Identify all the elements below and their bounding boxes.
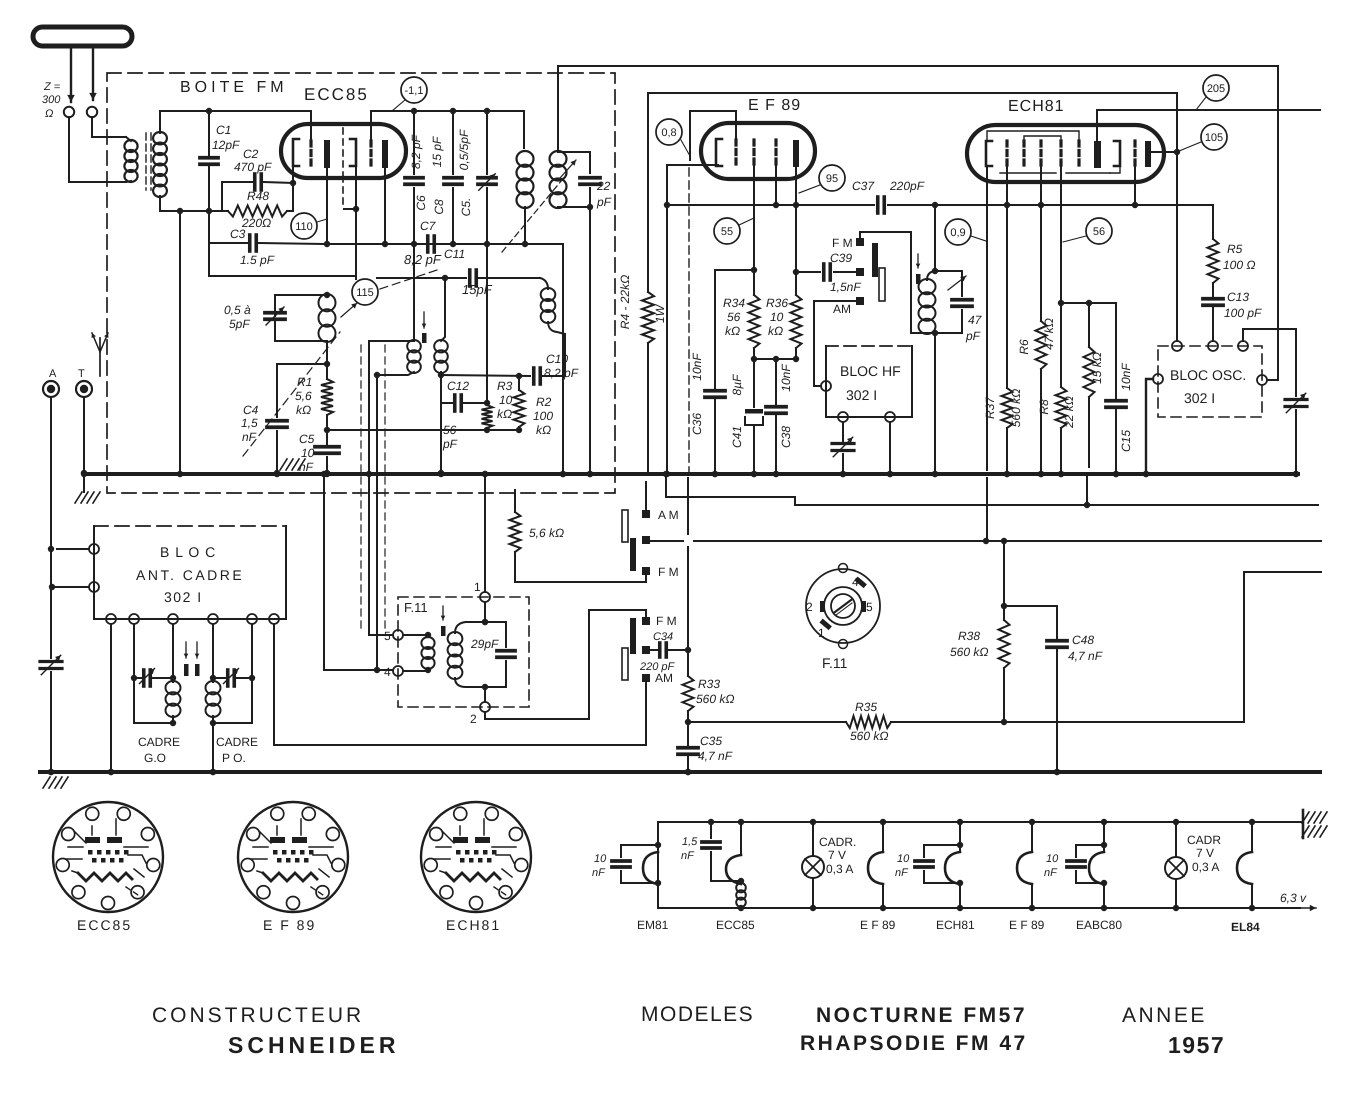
svg-text:115: 115 xyxy=(356,287,374,299)
EF89 grid2 xyxy=(752,140,755,166)
wire EF89 cathode out xyxy=(667,165,718,205)
capacitor C5 0.5/5pF xyxy=(486,111,488,174)
switch1 FM contact xyxy=(642,567,650,575)
switch2 FM contact xyxy=(642,617,650,625)
wire g-d elbow xyxy=(1060,166,1062,387)
socket ECC85 xyxy=(53,802,163,912)
svg-text:7 V: 7 V xyxy=(1196,846,1214,860)
ECC85 grid-1 xyxy=(309,141,312,167)
node C1 bottom xyxy=(206,208,212,214)
svg-text:100 pF: 100 pF xyxy=(1224,306,1262,320)
AM osc coil right bottom xyxy=(440,372,442,473)
svg-text:100: 100 xyxy=(533,409,553,423)
svg-text:470 pF: 470 pF xyxy=(234,160,272,174)
node C1 top xyxy=(206,108,212,114)
tank cap arrow xyxy=(948,276,966,290)
dipole left lead with arrow xyxy=(70,46,72,102)
wire pin2 xyxy=(52,586,89,588)
AM osc coil right xyxy=(434,340,448,352)
resistor R48 220ohm xyxy=(221,182,223,211)
svg-text:302 I: 302 I xyxy=(164,589,203,605)
terminal T xyxy=(76,381,92,397)
svg-text:ANNEE: ANNEE xyxy=(1122,1004,1207,1027)
variable cap OSC xyxy=(1285,398,1307,401)
svg-text:R3: R3 xyxy=(497,379,513,393)
node C11 wire xyxy=(442,275,448,281)
svg-text:C35: C35 xyxy=(700,734,722,748)
box F11 xyxy=(398,597,529,707)
switch3 black bar xyxy=(872,243,878,277)
chassis wall xyxy=(1302,810,1305,838)
svg-text:5,6: 5,6 xyxy=(295,389,312,403)
node cathode gnd xyxy=(664,202,670,208)
node y244 a xyxy=(324,241,330,247)
wire T to bus xyxy=(83,397,85,473)
svg-text:pF: pF xyxy=(442,437,458,451)
resistor R36 10k xyxy=(791,295,802,348)
svg-text:4: 4 xyxy=(852,575,859,589)
svg-text:220pF: 220pF xyxy=(889,179,925,193)
wire avc solid xyxy=(687,478,689,534)
svg-text:C48: C48 xyxy=(1072,633,1094,647)
wire FM to resistor xyxy=(515,552,646,582)
bus junctions xyxy=(81,471,87,477)
wire anode1 pin xyxy=(292,166,294,183)
wire ground drop x180 xyxy=(179,211,181,473)
svg-text:C10: C10 xyxy=(546,352,568,366)
svg-text:F M: F M xyxy=(656,614,677,628)
pin OSC right xyxy=(1257,375,1267,385)
svg-text:T: T xyxy=(78,368,85,380)
wire pin1 xyxy=(57,548,89,550)
pin bloc b3 xyxy=(168,614,178,624)
switch2 white bar xyxy=(622,648,628,680)
svg-text:55: 55 xyxy=(721,226,733,238)
svg-text:10: 10 xyxy=(897,853,910,865)
svg-text:CADRE: CADRE xyxy=(138,735,180,749)
capacitor C7 8.2pF xyxy=(426,236,430,252)
capacitor C11 15pF xyxy=(468,270,472,286)
svg-text:12pF: 12pF xyxy=(212,138,240,152)
wire elbow right xyxy=(1244,572,1321,722)
bus2 junctions xyxy=(48,769,54,775)
pin BLOC HF left xyxy=(821,381,831,391)
svg-text:C36: C36 xyxy=(690,413,704,435)
socket ECH81 xyxy=(421,802,531,912)
svg-text:BOITE FM: BOITE FM xyxy=(180,79,288,96)
wire grid line y244 xyxy=(324,244,563,474)
svg-text:ANT. CADRE: ANT. CADRE xyxy=(136,567,244,583)
svg-text:R33: R33 xyxy=(698,677,720,691)
svg-text:5,6 kΩ: 5,6 kΩ xyxy=(529,526,564,540)
svg-text:2: 2 xyxy=(806,600,813,614)
ECH81 tri grid xyxy=(1133,141,1136,166)
svg-text:kΩ: kΩ xyxy=(768,324,783,338)
ECH81 cathode bracket xyxy=(986,141,992,166)
svg-text:1,5: 1,5 xyxy=(241,416,258,430)
wire A to bus2 xyxy=(50,672,52,772)
svg-text:CADR: CADR xyxy=(1187,833,1221,847)
node bus2 C35 xyxy=(685,769,691,775)
box BOITE FM xyxy=(107,73,615,493)
node A pin1 xyxy=(48,546,54,552)
ECC85 cathode-2 bar xyxy=(382,140,388,168)
svg-text:C12: C12 xyxy=(447,379,469,393)
wire HF b2 to bus xyxy=(889,422,891,474)
node y244 e xyxy=(522,241,528,247)
pin F11 4 xyxy=(393,666,403,676)
svg-text:nF: nF xyxy=(1044,867,1058,879)
capacitor C15 10nF xyxy=(1115,303,1117,398)
capacitor C41 8uF xyxy=(753,359,755,407)
wire common y541 xyxy=(650,540,683,542)
meas circle -1,1 xyxy=(401,77,427,103)
svg-text:kΩ: kΩ xyxy=(536,423,551,437)
resistor R6 47k xyxy=(1040,205,1042,321)
resistor R5 100ohm xyxy=(1208,239,1219,283)
wire tank riser xyxy=(934,205,936,271)
wire ECH81 anode riser xyxy=(1096,110,1098,141)
wire anode line y205 xyxy=(667,204,874,206)
wire secondary bottom xyxy=(160,196,222,211)
meas circle 0,9 xyxy=(945,219,971,245)
rotary F11 outer xyxy=(806,569,880,643)
capacitor C4 1.5nF xyxy=(276,364,278,417)
wire to pin4 line xyxy=(376,375,378,670)
resistor R4 22k xyxy=(642,292,654,343)
node bus x563 xyxy=(560,471,566,477)
wire screen drop xyxy=(753,166,755,295)
wire R4 to bus xyxy=(647,343,649,474)
svg-text:C3: C3 xyxy=(230,227,246,241)
pin bloc b6 xyxy=(269,614,279,624)
gang dash b xyxy=(384,345,386,628)
ECH81 tri bracket xyxy=(1114,141,1120,166)
svg-text:1.5 pF: 1.5 pF xyxy=(240,253,275,267)
capacitor C8 15pF xyxy=(452,111,454,174)
capacitor C39 1.5nF xyxy=(796,271,820,273)
svg-text:C7: C7 xyxy=(420,219,437,233)
svg-text:R8: R8 xyxy=(1037,399,1051,415)
heater lamp2 xyxy=(1175,822,1177,857)
wire coil2 bottom xyxy=(558,206,590,208)
box BLOC HF xyxy=(826,345,912,347)
wire cathode to bus xyxy=(666,205,668,474)
node coil top xyxy=(324,292,330,298)
wire bracket2 pin xyxy=(355,166,357,209)
F11 secondary coil xyxy=(448,632,463,645)
rotary F11 mid xyxy=(824,587,862,625)
ECH81 grid b xyxy=(1022,141,1025,166)
svg-text:EM81: EM81 xyxy=(637,918,669,932)
pin bloc b4 xyxy=(208,614,218,624)
capacitor C12 56pF xyxy=(441,402,452,404)
ground bus2 hatch xyxy=(43,777,50,788)
wire R35 to elbow xyxy=(891,721,1244,723)
tuning arrow IF xyxy=(502,180,562,252)
wire C3 return loop xyxy=(209,243,356,276)
svg-text:E F 89: E F 89 xyxy=(1009,918,1045,932)
wire pin1 in xyxy=(484,602,486,622)
svg-text:4,7 nF: 4,7 nF xyxy=(698,749,733,763)
svg-text:pF: pF xyxy=(596,195,612,209)
EF89 anode bar xyxy=(793,140,799,167)
svg-text:C39: C39 xyxy=(830,251,852,265)
ECH81 anode bar xyxy=(1094,141,1101,168)
svg-text:47: 47 xyxy=(968,313,983,327)
svg-text:A: A xyxy=(49,368,57,380)
svg-text:SCHNEIDER: SCHNEIDER xyxy=(228,1032,399,1058)
svg-text:pF: pF xyxy=(965,329,981,343)
node y244 d xyxy=(484,241,490,247)
capacitor C36 10nF xyxy=(715,270,754,388)
wire A down xyxy=(50,397,52,658)
EF89 grid1 xyxy=(734,140,737,166)
meas circle 55 xyxy=(714,218,740,244)
svg-text:C15: C15 xyxy=(1119,430,1133,452)
ground bus xyxy=(84,472,1298,476)
svg-text:R1: R1 xyxy=(297,375,312,389)
wire bus to pin4 xyxy=(324,474,393,670)
svg-text:C2: C2 xyxy=(243,147,259,161)
svg-text:EABC80: EABC80 xyxy=(1076,918,1122,932)
F11 core arrow xyxy=(442,606,444,620)
svg-text:G.O: G.O xyxy=(144,751,166,765)
svg-text:1W: 1W xyxy=(653,303,667,323)
svg-text:BLOC HF: BLOC HF xyxy=(840,363,901,379)
svg-text:C5: C5 xyxy=(299,432,315,446)
svg-text:R38: R38 xyxy=(958,629,980,643)
svg-text:C41: C41 xyxy=(730,426,744,448)
wire g-c pin xyxy=(1040,166,1042,205)
pin bloc b1 xyxy=(106,614,116,624)
svg-text:15pF: 15pF xyxy=(462,282,493,297)
svg-text:RHAPSODIE FM 47: RHAPSODIE FM 47 xyxy=(800,1032,1028,1055)
capacitor C37 220pF xyxy=(876,197,880,213)
capacitor C38 10nF xyxy=(775,359,777,404)
wire line y497-505 xyxy=(666,474,1318,505)
svg-text:0,5/5pF: 0,5/5pF xyxy=(457,129,471,170)
box BLOC ANT CADRE xyxy=(94,525,286,527)
F11 primary coil xyxy=(403,634,428,636)
switch3 white bar xyxy=(879,268,885,301)
tube ECC85 envelope xyxy=(281,124,406,178)
svg-text:5pF: 5pF xyxy=(229,317,250,331)
svg-text:22: 22 xyxy=(596,179,611,193)
wire y303 xyxy=(1061,302,1116,304)
svg-text:F.11: F.11 xyxy=(822,655,848,671)
capacitor C5b 10nF xyxy=(326,430,328,444)
svg-text:4: 4 xyxy=(384,665,391,679)
capacitor C48 4.7nF xyxy=(1004,606,1057,638)
wire bus to pin1 xyxy=(484,474,486,592)
resistor R8 22k xyxy=(1056,387,1067,428)
svg-text:AM: AM xyxy=(655,671,673,685)
rotary contacts xyxy=(820,601,825,612)
AM osc coil left xyxy=(413,244,415,341)
svg-text:8,2 pF: 8,2 pF xyxy=(404,252,442,267)
tube ECH81 envelope xyxy=(967,125,1164,182)
pin OSC t1 xyxy=(1172,341,1182,351)
heater cap 10nF ECH81 xyxy=(923,845,925,857)
capacitor C6 8.2pF xyxy=(413,111,415,174)
wire grid2 riser xyxy=(370,111,372,141)
svg-text:C38: C38 xyxy=(779,426,793,448)
svg-text:7 V: 7 V xyxy=(828,848,846,862)
wire dipole-right to transformer xyxy=(92,117,126,137)
node R2 top xyxy=(516,373,522,379)
svg-text:5: 5 xyxy=(866,600,873,614)
antenna symbol xyxy=(99,338,101,376)
terminal A xyxy=(43,381,59,397)
svg-text:ECH81: ECH81 xyxy=(446,917,501,933)
svg-text:10: 10 xyxy=(1046,853,1059,865)
svg-text:nF: nF xyxy=(895,867,909,879)
pin OSC left xyxy=(1153,374,1163,384)
folded dipole antenna xyxy=(33,27,132,46)
ground bus 2 xyxy=(40,770,1320,774)
ECH81 internal top wire2 xyxy=(1024,136,1061,141)
pin F11 5 xyxy=(393,630,403,640)
resistor R37 560k xyxy=(1006,205,1008,388)
terminal dipole-right xyxy=(87,107,97,117)
wire 22pF down to bus xyxy=(589,207,591,474)
transformer secondary coil xyxy=(153,132,167,144)
dipole right lead with arrow xyxy=(92,46,94,100)
resistor R2 100k xyxy=(518,376,520,390)
svg-text:F M: F M xyxy=(658,565,679,579)
variable cap HF xyxy=(842,422,844,441)
wire x1177 xyxy=(1176,93,1178,341)
svg-text:CONSTRUCTEUR: CONSTRUCTEUR xyxy=(152,1004,364,1027)
svg-text:R36: R36 xyxy=(766,296,788,310)
svg-text:100 Ω: 100 Ω xyxy=(1223,258,1255,272)
meas circle 105 xyxy=(1201,124,1227,150)
pin BLOC HF b1 xyxy=(838,412,848,422)
wire rail to R4 xyxy=(647,93,649,292)
wire y430 xyxy=(326,415,328,430)
heater lamp1 xyxy=(812,822,814,856)
ECH81 internal top wire xyxy=(987,131,1079,141)
capacitor C35 4.7nF xyxy=(687,722,689,745)
svg-text:R37: R37 xyxy=(983,396,997,419)
heater EABC80 xyxy=(1103,822,1105,852)
tank bottom wire xyxy=(927,332,962,334)
ECH81 grid c xyxy=(1039,141,1042,166)
variable cap A-line xyxy=(40,660,62,663)
wire b1 to bus2 xyxy=(110,624,112,772)
trimmer 0.5-5pF xyxy=(275,295,327,316)
svg-text:560 kΩ: 560 kΩ xyxy=(696,692,734,706)
capacitor C2 470pF xyxy=(222,181,252,183)
svg-text:R35: R35 xyxy=(855,700,877,714)
svg-text:CADR.: CADR. xyxy=(819,835,856,849)
svg-text:8µF: 8µF xyxy=(730,374,744,396)
svg-text:56: 56 xyxy=(1093,226,1105,238)
meas circle 0,8 xyxy=(656,119,682,145)
svg-text:95: 95 xyxy=(826,173,838,185)
heater rail left xyxy=(657,822,659,908)
heater EF89b xyxy=(1031,822,1033,852)
svg-text:15 kΩ: 15 kΩ xyxy=(1090,352,1104,384)
svg-text:CADRE: CADRE xyxy=(216,735,258,749)
svg-text:C11: C11 xyxy=(444,247,465,261)
svg-text:ECC85: ECC85 xyxy=(304,85,369,104)
wire pin2 to FM switch xyxy=(485,610,646,719)
wire coil2 top to B+ rail xyxy=(558,66,1278,380)
svg-text:kΩ: kΩ xyxy=(296,403,311,417)
wire anode rail y111 xyxy=(371,111,524,148)
svg-text:AM: AM xyxy=(833,302,851,316)
svg-text:1: 1 xyxy=(474,580,481,594)
svg-text:NOCTURNE FM57: NOCTURNE FM57 xyxy=(816,1004,1027,1027)
svg-text:E F 89: E F 89 xyxy=(860,918,896,932)
resistor R38 560k xyxy=(1003,541,1005,620)
resistor R33 560k xyxy=(687,650,689,676)
wire C11 left xyxy=(377,277,466,279)
svg-text:MODELES: MODELES xyxy=(641,1003,754,1026)
svg-text:22 kΩ: 22 kΩ xyxy=(1062,396,1076,429)
heater cap 1,5nF xyxy=(710,822,712,838)
svg-text:-1,1: -1,1 xyxy=(405,85,424,97)
wire C1 node down xyxy=(209,211,247,243)
tank coil xyxy=(927,271,935,280)
svg-text:nF: nF xyxy=(681,850,695,862)
ECC85 grid-2 xyxy=(369,141,372,167)
pin bloc left2 xyxy=(89,582,99,592)
IF coil secondary xyxy=(550,151,567,167)
svg-text:C8: C8 xyxy=(432,199,446,215)
svg-text:R2: R2 xyxy=(536,395,552,409)
switch3 common xyxy=(856,268,864,276)
svg-text:nF: nF xyxy=(299,460,314,474)
ECC85 anode-1 bracket xyxy=(293,139,299,166)
svg-text:10: 10 xyxy=(594,853,607,865)
svg-text:47 kΩ: 47 kΩ xyxy=(1042,318,1056,350)
wire cathode2 pin xyxy=(384,168,386,244)
pin bloc left1 xyxy=(89,544,99,554)
wire coil2 top to 22pF xyxy=(558,152,590,173)
wire screen bottom xyxy=(753,348,755,359)
svg-text:C13: C13 xyxy=(1227,290,1249,304)
switch1 AM contact xyxy=(642,510,650,518)
wire C4 branch xyxy=(277,363,327,365)
wire y110 xyxy=(1097,109,1320,111)
svg-text:ECC85: ECC85 xyxy=(716,918,755,932)
svg-text:ECH81: ECH81 xyxy=(1008,98,1065,115)
wire tank to bus xyxy=(934,333,936,474)
svg-text:10: 10 xyxy=(770,310,784,324)
meas circle 115 xyxy=(352,279,378,305)
gang line xyxy=(243,332,340,456)
resistor 5,6k xyxy=(510,512,521,552)
core arrow AM osc xyxy=(423,312,425,328)
resistor 15k xyxy=(1088,303,1090,347)
heater rail top xyxy=(658,821,1303,823)
node R1 bottom xyxy=(324,427,330,433)
svg-text:110: 110 xyxy=(295,221,313,233)
node bracket2 xyxy=(353,206,359,212)
svg-text:F M: F M xyxy=(832,236,853,250)
resistor R1 5.6k xyxy=(321,379,333,415)
svg-text:0,5 à: 0,5 à xyxy=(224,303,251,317)
svg-text:Z =: Z = xyxy=(43,81,61,93)
ECH81 tri anode xyxy=(1145,141,1151,167)
core arrows cadre xyxy=(185,642,187,658)
wire anode pin xyxy=(795,167,797,295)
pin F11 2 xyxy=(480,702,490,712)
ground boite xyxy=(280,459,287,470)
